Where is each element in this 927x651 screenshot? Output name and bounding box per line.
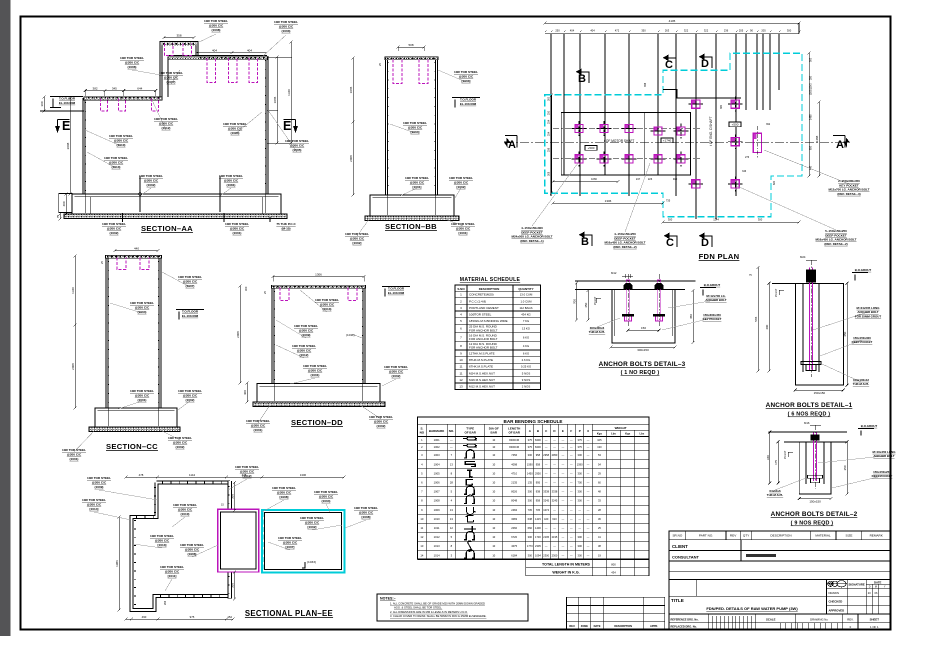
svg-text:300: 300: [578, 490, 583, 494]
section BB PCC mud mat: [365, 216, 459, 221]
plan EE label 1033: [302, 562, 305, 568]
svg-text:—: —: [587, 482, 590, 485]
anchor detail 1 concrete outline: [772, 282, 843, 284]
plan EE room inner walls black: [221, 512, 257, 569]
svg-text:D: D: [701, 237, 709, 249]
svg-text:0.25 KG: 0.25 KG: [521, 365, 531, 369]
svg-text:( 9 NOS REQD ): ( 9 NOS REQD ): [791, 521, 834, 527]
svg-text:340: 340: [766, 455, 770, 460]
svg-text:368: 368: [231, 494, 235, 499]
section CC floor level right: [176, 310, 204, 320]
svg-text:644: 644: [137, 87, 142, 91]
section CC PCC mud mat: [89, 427, 180, 432]
title block bottom strip: [669, 613, 891, 615]
svg-text:800: 800: [611, 562, 616, 566]
svg-text:BAR BENDING SCHEDULE: BAR BENDING SCHEDULE: [504, 419, 563, 424]
svg-text:—: —: [562, 439, 565, 442]
svg-text:SCALE: SCALE: [766, 618, 776, 622]
svg-text:BAR: BAR: [491, 431, 498, 435]
svg-text:(1033): (1033): [307, 560, 316, 564]
svg-text:8400: 8400: [535, 445, 541, 449]
svg-text:DRAWN: DRAWN: [829, 591, 839, 595]
svg-text:OF BAR: OF BAR: [508, 431, 520, 435]
section AA top dimensions 382 345 644: [85, 90, 105, 92]
svg-text:300: 300: [528, 453, 533, 457]
section DD PCC mud mat: [253, 402, 385, 407]
svg-text:QTY: QTY: [743, 534, 749, 538]
svg-text:300: 300: [244, 286, 248, 291]
section AA line under floor label: [40, 110, 84, 112]
svg-text:1009: 1009: [434, 508, 440, 512]
svg-text:4098: 4098: [511, 462, 517, 466]
svg-text:9 NOS: 9 NOS: [522, 378, 531, 382]
svg-text:205: 205: [761, 29, 766, 33]
svg-text:700: 700: [573, 299, 577, 304]
svg-text:M24 M.S.HEX.NUT: M24 M.S.HEX.NUT: [469, 371, 495, 375]
svg-text:276: 276: [745, 156, 750, 159]
svg-text:175: 175: [774, 460, 778, 465]
svg-text:SHEET: SHEET: [870, 618, 880, 622]
svg-text:25 GRT: 25 GRT: [784, 450, 787, 459]
svg-text:FOR ANCHOR BOLT: FOR ANCHOR BOLT: [469, 346, 498, 350]
section DD slab hatch blobs: [273, 286, 364, 288]
section AA PCC mud mat: [64, 214, 287, 219]
anchor pocket: [734, 177, 736, 192]
section AA leader label 1001 bottom-in: [220, 188, 231, 196]
svg-text:—: —: [570, 454, 573, 457]
svg-text:300: 300: [528, 490, 533, 494]
section AA floor slab hatched strip: [84, 97, 162, 100]
svg-text:APPROVED: APPROVED: [829, 608, 845, 612]
svg-text:150x150: 150x150: [814, 391, 826, 395]
svg-text:420: 420: [544, 517, 549, 521]
page left gray margin strip: [0, 0, 10, 636]
section BB wall outline: [387, 58, 437, 195]
svg-text:CLIENT: CLIENT: [672, 544, 688, 549]
svg-text:—: —: [578, 527, 581, 530]
svg-text:M=16x450 LONGANCHOR BOLT: M=16x450 LONGANCHOR BOLT: [873, 450, 897, 458]
svg-text:300: 300: [40, 101, 44, 106]
section DD top slab hatched strip: [272, 285, 366, 288]
svg-text:300: 300: [787, 29, 792, 33]
section CC top slab hatched strip: [106, 255, 162, 258]
svg-text:QUANTITY: QUANTITY: [518, 287, 533, 291]
svg-text:4075: 4075: [511, 544, 517, 548]
section DD leader label 1009: [276, 320, 306, 338]
svg-text:S.NO: S.NO: [457, 287, 465, 291]
anchor pocket: [578, 152, 580, 167]
svg-text:735: 735: [666, 199, 671, 203]
svg-text:—: —: [587, 446, 590, 449]
section DD leader label 1002 right: [382, 379, 396, 386]
svg-text:150x300x450KEY POCKET: 150x300x450KEY POCKET: [703, 313, 722, 321]
svg-text:300: 300: [548, 96, 551, 101]
svg-text:2300: 2300: [543, 553, 549, 557]
section AA stirrups on floor: [101, 99, 108, 112]
svg-text:—: —: [553, 527, 556, 530]
svg-text:6184: 6184: [511, 553, 517, 557]
svg-text:308: 308: [548, 171, 551, 176]
svg-text:508: 508: [408, 43, 413, 47]
svg-text:13.0 CUM: 13.0 CUM: [520, 293, 533, 297]
svg-text:—: —: [562, 545, 565, 548]
svg-text:1730: 1730: [535, 535, 541, 539]
svg-text:300: 300: [578, 535, 583, 539]
title block sign date grid: [826, 580, 828, 614]
svg-text:254: 254: [548, 119, 551, 124]
svg-text:REFERENCE DRG. No.: REFERENCE DRG. No.: [671, 618, 699, 622]
fdn plan small level boxes: [585, 146, 597, 151]
section CC top dimension 440: [115, 250, 158, 252]
section AA footing: [72, 194, 281, 214]
svg-text:705: 705: [528, 508, 533, 512]
svg-text:DESCRIPTION: DESCRIPTION: [614, 624, 632, 628]
section BB top slab hatched strip: [385, 57, 438, 60]
section AA stirrups on top box: [165, 44, 174, 56]
svg-text:—: —: [553, 472, 556, 475]
svg-text:FDN PLAN: FDN PLAN: [699, 252, 740, 261]
fdn plan leader label pocket detail 1: [532, 163, 578, 226]
section AA T.O.FLOOR level marker: [50, 97, 83, 108]
section AA slab line under top level: [168, 57, 267, 60]
svg-text:368: 368: [231, 583, 235, 588]
svg-text:3245: 3245: [543, 499, 549, 503]
title block client row: [669, 549, 891, 551]
anchor pocket: [695, 177, 697, 192]
title block title cell: [669, 595, 827, 597]
section CC leader label 1001: [118, 401, 142, 409]
section BB footing: [370, 195, 454, 216]
svg-text:11: 11: [421, 526, 424, 530]
plan EE leader label 1010: [172, 517, 185, 527]
section AA top box dimension 358: [164, 37, 194, 39]
svg-text:910: 910: [673, 177, 678, 181]
svg-text:205: 205: [739, 29, 744, 33]
svg-text:450: 450: [689, 314, 693, 319]
svg-text:TOTAL LENGTH IN METERS: TOTAL LENGTH IN METERS: [542, 563, 591, 567]
svg-text:—: —: [570, 439, 573, 442]
svg-text:300x150: 300x150: [637, 348, 649, 352]
section CC leader label 1007: [162, 272, 190, 287]
svg-text:ZONE: ZONE: [581, 624, 588, 628]
svg-text:2008: 2008: [236, 331, 240, 338]
section CC stirrups: [117, 258, 126, 270]
fdn plan centerline A-A: [505, 142, 845, 144]
svg-text:1007: 1007: [434, 490, 440, 494]
plan EE right wall top segment: [228, 481, 232, 509]
svg-text:T.O.FLOOREL.100.00M: T.O.FLOOREL.100.00M: [388, 287, 405, 295]
svg-text:—: —: [587, 509, 590, 512]
plan EE magenta room rect: [218, 509, 259, 572]
svg-text:B: B: [578, 73, 586, 85]
svg-text:SR.NO: SR.NO: [672, 534, 682, 538]
svg-text:375: 375: [578, 445, 583, 449]
section CC bottom label 1002: [160, 430, 180, 440]
plan EE leader label 1004: [326, 504, 330, 512]
fdn plan pump base rectangle: [561, 113, 690, 176]
svg-text:M=12x700 LG.ANCHOR BOLT: M=12x700 LG.ANCHOR BOLT: [705, 294, 726, 302]
plan EE right wall bottom stub: [228, 573, 233, 599]
svg-text:75: 75: [56, 215, 60, 219]
svg-text:SECTION–AA: SECTION–AA: [141, 224, 193, 233]
svg-text:13: 13: [450, 517, 453, 521]
svg-text:ANCHOR BOLTS DETAIL–2: ANCHOR BOLTS DETAIL–2: [771, 511, 858, 518]
section AA floor hatch blobs: [88, 97, 160, 99]
svg-text:650: 650: [810, 145, 813, 150]
svg-text:ANCHOR BOLTS DETAIL–1: ANCHOR BOLTS DETAIL–1: [766, 402, 853, 409]
anchor detail 1 bottom dimension: [795, 389, 843, 391]
section CC leader label 1004: [110, 303, 142, 313]
svg-text:C: C: [666, 237, 674, 249]
svg-text:1306: 1306: [300, 473, 307, 477]
svg-text:—: —: [545, 472, 548, 475]
section AA leader label 1004: [235, 112, 262, 134]
svg-text:1450: 1450: [527, 471, 533, 475]
svg-text:D: D: [701, 58, 709, 70]
svg-text:375: 375: [578, 438, 583, 442]
svg-text:280: 280: [810, 75, 813, 80]
svg-text:—: —: [587, 491, 590, 494]
section AA wall outline: [83, 98, 86, 194]
svg-text:6 KG: 6 KG: [523, 352, 529, 356]
svg-text:3. CLEAR COVER TO REINF. SHALL: 3. CLEAR COVER TO REINF. SHALL BE 50MM I…: [390, 614, 487, 618]
svg-text:Kgs: Kgs: [625, 432, 631, 436]
svg-text:400: 400: [62, 201, 66, 206]
anchor detail 2 bolt: [814, 433, 817, 482]
section CC wall outline: [107, 257, 160, 409]
svg-text:DATE: DATE: [874, 580, 882, 584]
svg-text:Kgs: Kgs: [597, 432, 603, 436]
section BB leader label 1003: [438, 70, 466, 82]
svg-text:263: 263: [164, 600, 167, 605]
svg-text:6THK.M.S.PLATE: 6THK.M.S.PLATE: [469, 365, 493, 369]
anchor detail 3 bottom dimension: [611, 346, 675, 348]
svg-text:—: —: [570, 446, 573, 449]
svg-text:700: 700: [578, 481, 583, 485]
svg-text:A: A: [508, 139, 516, 151]
svg-text:358: 358: [176, 34, 181, 38]
svg-text:1011: 1011: [434, 526, 440, 530]
svg-text:958: 958: [536, 499, 541, 503]
section BB stirrups: [393, 60, 402, 84]
svg-text:—: —: [570, 545, 573, 548]
svg-text:DRAWING No: DRAWING No: [810, 618, 828, 622]
svg-text:1012: 1012: [434, 535, 440, 539]
svg-text:—: —: [587, 500, 590, 503]
section AA wall dot texture: [85, 60, 265, 192]
section AA wall faces into footing: [85, 194, 265, 213]
section AA leader label 1005 right: [268, 110, 297, 152]
svg-text:958: 958: [536, 453, 541, 457]
svg-text:FDN/PED. DETAILS OF RAW WATER: FDN/PED. DETAILS OF RAW WATER PUMP (3W): [706, 606, 798, 611]
anchor pocket: [603, 152, 605, 167]
svg-text:—: —: [570, 536, 573, 539]
revision table: [567, 597, 665, 630]
svg-text:(163)(150): (163)(150): [810, 83, 813, 95]
svg-text:M=24x505 LONGANCHOR BOLTFOR 25: M=24x505 LONGANCHOR BOLTFOR 25MM GROUT: [855, 306, 881, 318]
fdn plan pocket row dashed lines: [553, 128, 700, 130]
svg-text:150x150: 150x150: [809, 500, 821, 504]
section AA left dimension 2008: [69, 98, 71, 194]
svg-text:E: E: [62, 119, 70, 133]
material schedule table grid: [455, 285, 541, 390]
svg-text:1590: 1590: [577, 462, 583, 466]
section DD wall dot texture: [274, 291, 362, 382]
anchor detail 3 bolt left: [626, 280, 630, 321]
svg-text:—: —: [562, 518, 565, 521]
svg-text:1065: 1065: [349, 86, 353, 93]
svg-text:1065: 1065: [273, 96, 277, 103]
svg-text:—: —: [545, 527, 548, 530]
svg-text:1005: 1005: [434, 471, 440, 475]
svg-text:DATE: DATE: [594, 624, 601, 628]
svg-text:4 KG: 4 KG: [523, 344, 529, 348]
anchor pocket: [695, 97, 697, 112]
svg-text:8400CM: 8400CM: [509, 445, 519, 449]
svg-text:256: 256: [548, 147, 551, 152]
svg-text:1590: 1590: [527, 462, 533, 466]
svg-text:—: —: [570, 491, 573, 494]
svg-text:8400CM: 8400CM: [509, 438, 519, 442]
section CC wall dot texture: [108, 261, 158, 406]
svg-text:226: 226: [648, 177, 653, 181]
anchor detail 3 plate label left: [597, 318, 620, 327]
svg-text:—: —: [578, 509, 581, 512]
svg-text:M24: M24: [800, 255, 806, 259]
section AA leader label 1010: [85, 130, 121, 146]
title block consultant row: [669, 560, 891, 562]
fdn plan leader label deep pocket right lower: [737, 186, 836, 230]
svg-text:12: 12: [450, 526, 453, 530]
svg-text:6 KG: 6 KG: [523, 335, 529, 339]
plan EE right small dims: [234, 483, 236, 511]
svg-text:CONCRETE(M20): CONCRETE(M20): [469, 293, 494, 297]
svg-text:8THK.M.S.PLATE: 8THK.M.S.PLATE: [469, 358, 493, 362]
svg-text:13: 13: [420, 544, 423, 548]
svg-text:—: —: [545, 545, 548, 548]
section CC wall faces into footing: [108, 408, 158, 426]
svg-text:398: 398: [644, 82, 647, 87]
svg-text:+500: +500: [588, 146, 595, 150]
svg-text:112 BAGS: 112 BAGS: [519, 306, 532, 310]
svg-text:—: —: [545, 439, 548, 442]
svg-text:—: —: [570, 472, 573, 475]
svg-text:—: —: [562, 446, 565, 449]
svg-text:1 OF 1: 1 OF 1: [870, 625, 879, 629]
plan EE leader label 1014 left: [94, 512, 131, 520]
svg-text:—: —: [570, 554, 573, 557]
anchor detail 1 bolt: [810, 268, 813, 372]
svg-text:D: D: [869, 585, 871, 588]
fdn plan leader label key pocket right: [764, 150, 849, 184]
title block empty rows: [669, 571, 891, 573]
svg-text:300: 300: [578, 453, 583, 457]
plan EE leader label 1002: [312, 525, 342, 530]
anchor detail 3 bolt right: [657, 280, 661, 321]
svg-text:2008: 2008: [71, 363, 75, 370]
svg-text:300: 300: [528, 499, 533, 503]
svg-text:E: E: [283, 119, 291, 133]
anchor detail 2 concrete outline: [768, 431, 847, 433]
svg-text:—: —: [570, 509, 573, 512]
svg-text:—: —: [587, 472, 590, 475]
svg-text:APPR.: APPR.: [650, 624, 658, 628]
section BB left dimensions 1065 2008: [352, 58, 354, 122]
section AA leader label 1002 bottom-in: [140, 188, 151, 196]
svg-text:2195: 2195: [543, 535, 549, 539]
svg-text:2950: 2950: [535, 471, 541, 475]
svg-text:PART NO.: PART NO.: [699, 534, 713, 538]
svg-text:13 KG: 13 KG: [522, 327, 530, 331]
section AA footing left step: [59, 194, 72, 213]
section AA leader label 1012: [152, 100, 166, 130]
svg-text:B.O.GROUT: B.O.GROUT: [704, 283, 721, 287]
svg-text:995: 995: [536, 481, 541, 485]
svg-text:—: —: [562, 500, 565, 503]
svg-text:7456: 7456: [511, 453, 517, 457]
svg-text:958: 958: [536, 462, 541, 466]
svg-text:—: —: [553, 463, 556, 466]
svg-text:450: 450: [843, 331, 847, 336]
svg-text:2060: 2060: [511, 526, 517, 530]
svg-text:300: 300: [668, 218, 673, 222]
svg-text:14: 14: [420, 553, 423, 557]
svg-text:WEIGHT IN K.G.: WEIGHT IN K.G.: [552, 571, 579, 575]
svg-text:MATERIAL SCHEDULE: MATERIAL SCHEDULE: [460, 277, 521, 283]
svg-text:1340: 1340: [287, 89, 291, 96]
svg-text:C: C: [665, 59, 673, 71]
svg-text:236: 236: [724, 29, 729, 33]
svg-text:—: —: [587, 518, 590, 521]
section DD wall faces into footing: [274, 384, 362, 402]
svg-text:1488: 1488: [810, 114, 813, 120]
svg-text:10: 10: [459, 358, 463, 362]
svg-text:2135: 2135: [511, 481, 517, 485]
svg-text:—: —: [562, 454, 565, 457]
svg-text:M: M: [875, 585, 877, 588]
svg-text:—: —: [562, 472, 565, 475]
svg-text:440: 440: [134, 247, 139, 251]
svg-text:938: 938: [536, 490, 541, 494]
svg-text:CHECKED: CHECKED: [829, 600, 843, 604]
section AA box and slab hatch blobs: [163, 43, 196, 45]
svg-text:B.O.GROUT: B.O.GROUT: [861, 424, 878, 428]
fdn plan grid vertical lines: [550, 34, 552, 197]
svg-text:18SWG.M.S.BINDING WIRE: 18SWG.M.S.BINDING WIRE: [469, 319, 508, 323]
fdn plan left edge dimensions: [551, 95, 553, 193]
svg-text:152: 152: [227, 615, 232, 619]
svg-text:NO.: NO.: [449, 429, 455, 433]
section CC left dimensions 1340 2008: [74, 256, 76, 325]
svg-text:150: 150: [641, 326, 646, 330]
plan EE left dimension 1986: [118, 517, 120, 610]
section BB floor level right: [452, 98, 480, 108]
svg-text:AGG. & STEEL SHALL BE TOR STEE: AGG. & STEEL SHALL BE TOR STEEL.: [394, 606, 442, 610]
svg-text:2950: 2950: [552, 453, 558, 457]
plan EE leader label 1009 left: [99, 490, 158, 500]
svg-text:150x150x300DEEP POCKET: 150x150x300DEEP POCKET: [852, 336, 873, 344]
svg-text:—: —: [450, 446, 453, 449]
section DD bottom left label 1001: [258, 405, 270, 423]
svg-text:13: 13: [450, 462, 453, 466]
svg-text:434 KG: 434 KG: [521, 313, 531, 317]
svg-text:—: —: [587, 536, 590, 539]
anchor detail 3 left dimensions: [576, 283, 578, 320]
plan EE leader label 1007: [268, 542, 290, 550]
svg-text:500: 500: [810, 57, 813, 62]
svg-text:610: 610: [552, 517, 557, 521]
svg-text:12: 12: [420, 535, 423, 539]
